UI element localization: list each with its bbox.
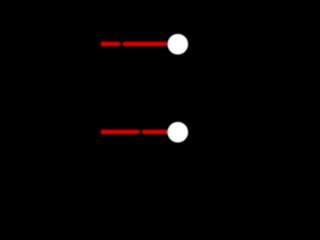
- mechanical link dashed segment (pole 1, dash A): [101, 42, 120, 47]
- actuator knob / terminal circle (pole 1): [168, 34, 189, 55]
- mechanical link dashed segment (pole 1, dash B): [123, 42, 167, 47]
- actuator knob / terminal circle (pole 2): [168, 122, 189, 143]
- mechanical link dashed segment (pole 2, dash B): [143, 130, 168, 135]
- mechanical link dashed segment (pole 2, dash A): [101, 130, 139, 135]
- switch schematic (DPST push switch, black strokes on black background; only red mechanical-link dashes and white actuator knobs are visible): [0, 0, 220, 176]
